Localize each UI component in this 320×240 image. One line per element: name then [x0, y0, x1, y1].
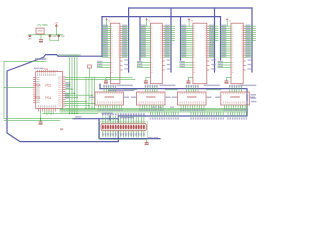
bus: main route around left side	[7, 55, 247, 142]
power rail wire	[29, 34, 64, 36]
IC4 VCC pin top	[226, 18, 232, 26]
RAM IC1 box	[110, 23, 120, 83]
regulator IC5 7805	[36, 28, 44, 34]
driver IC6 side labels	[89, 97, 94, 99]
IC2 left address pins	[140, 25, 150, 58]
bus: small drop at connector	[109, 116, 111, 120]
stubs below rails right side C	[227, 112, 247, 120]
IC3 lower left control pins	[180, 61, 193, 68]
IC4 lower right pins	[243, 59, 252, 70]
IC2 lower left control pins	[137, 61, 150, 68]
CPU port names	[35, 84, 52, 100]
label above CPU bus segment	[75, 116, 82, 117]
driver IC9 top pins	[229, 85, 242, 92]
IC3 stubs right of data bus	[215, 26, 218, 41]
rail junctions	[69, 108, 95, 115]
driver IC7 bottom pins	[139, 105, 164, 111]
connector ground	[146, 140, 148, 142]
IC1 GND pin	[104, 77, 111, 83]
+5V supply symbol	[56, 34, 58, 36]
driver IC8 top pins	[186, 85, 199, 92]
IC1 part name label	[117, 85, 133, 87]
IC1 lower left control pins	[97, 61, 110, 68]
RAM IC2 box	[150, 23, 162, 83]
connector SV1 body	[101, 123, 146, 130]
connector pads	[102, 125, 145, 130]
IC2 VCC pin top	[146, 18, 152, 26]
svg-text:+5V 7805: +5V 7805	[37, 24, 48, 27]
IC2 GND pin	[144, 77, 151, 83]
driver IC9 bottom pins	[224, 105, 249, 111]
bus: address drop IC1	[101, 17, 103, 57]
IC3 left address pins	[181, 25, 193, 58]
tiny red text near left rail	[60, 128, 63, 130]
bus: left stub on middle bus	[99, 84, 101, 88]
CPU left pins	[33, 77, 40, 103]
bus label left route	[35, 58, 47, 60]
IC4 part name label	[240, 85, 256, 87]
CPU bottom ground	[40, 111, 42, 121]
bus: data drop IC1	[128, 8, 130, 72]
bus: top address bus	[102, 16, 221, 18]
connector bottom stubs	[102, 131, 145, 137]
bus: segment near CPU bottom	[73, 118, 118, 120]
IC2 stubs right of data bus	[172, 26, 175, 41]
driver IC8 side labels	[172, 97, 177, 99]
driver IC7 box	[137, 92, 166, 105]
ground rail of caps	[41, 34, 59, 41]
labels on rails	[152, 107, 156, 108]
IC1 VCC pin top	[106, 18, 112, 26]
bus name labels	[108, 90, 134, 92]
connector enclosure	[100, 122, 148, 140]
CPU left nets to far left	[4, 61, 33, 118]
CPU top pin stubs	[38, 70, 58, 71]
IC1 left address pins	[102, 25, 110, 58]
feeder rail above CPU	[58, 54, 81, 56]
IC4 GND pin	[225, 77, 232, 83]
connector top stubs	[102, 113, 145, 123]
rails below CPU going right	[43, 113, 98, 115]
svg-text:P02: P02	[45, 84, 51, 88]
bottom left rails	[4, 118, 73, 120]
driver IC8 bottom pins	[180, 105, 205, 111]
capacitor C6 (input)	[28, 35, 31, 36]
IC2 part name label	[159, 85, 175, 87]
driver IC7 top pins	[145, 85, 158, 92]
IC3 GND pin	[186, 77, 193, 83]
long nets to middle section	[65, 76, 132, 78]
CPU net labels right	[65, 82, 71, 99]
CPU bottom pins	[38, 105, 56, 111]
driver IC6 box	[95, 92, 124, 105]
CPU right pins	[58, 77, 65, 107]
IC3 right data pins	[207, 25, 215, 58]
CPU bottom nets to rails	[45, 111, 53, 115]
IC2 lower right pins	[162, 59, 171, 70]
capacitor C7	[49, 34, 51, 36]
labels above connector bottom bus	[148, 137, 153, 138]
nets linking driver boxes	[124, 89, 221, 91]
bus: branch down to connector bottom bus	[99, 119, 160, 139]
IC1 lower right pins	[120, 59, 129, 70]
IC4 left address pins	[221, 25, 232, 58]
IC3 lower right pins	[207, 59, 216, 70]
bus: data drop IC3	[214, 8, 216, 72]
IC4 lower left control pins	[218, 61, 231, 68]
stubs below rails right side A	[150, 112, 179, 120]
ground symbol power	[39, 40, 43, 43]
bus: address drop IC2	[139, 17, 141, 60]
IC4 stubs right of data bus	[253, 26, 256, 41]
capacitor C8	[58, 34, 60, 36]
net left horizontal above CPU	[4, 60, 46, 62]
driver IC6 bottom pins	[98, 105, 123, 111]
driver IC7 side labels	[131, 97, 136, 99]
CPU right pin connections	[65, 84, 95, 106]
clock symbol above CPU	[88, 65, 92, 68]
data nets right of CPU	[86, 77, 95, 108]
IC2 right data pins	[162, 25, 171, 58]
bus: data drop IC4	[251, 8, 253, 72]
bus: top data bus	[129, 7, 252, 9]
driver IC6 top pins	[103, 85, 116, 92]
IC4 right data pins	[243, 25, 252, 58]
IC3 part name label	[204, 85, 220, 87]
RAM IC4 box	[231, 23, 243, 83]
svg-text:P04: P04	[45, 96, 51, 100]
RAM IC3 box	[193, 23, 207, 83]
IC3 VCC pin top	[188, 18, 194, 26]
CPU inside top pin rows	[37, 72, 56, 75]
stubs below rails right side B	[190, 112, 224, 120]
IC1 right data pins	[120, 25, 129, 58]
bus: address drop IC3	[180, 17, 182, 60]
bus: data drop IC2	[170, 8, 172, 72]
labels right edge middle row	[251, 94, 257, 102]
address nets right of CPU	[70, 55, 78, 114]
CPU labels above	[34, 68, 39, 70]
driver IC9 box	[221, 92, 250, 105]
driver IC9 side labels	[215, 97, 220, 99]
driver IC8 box	[178, 92, 207, 105]
CPU IC1 box	[36, 72, 63, 109]
bus: address drop IC4	[220, 17, 222, 60]
